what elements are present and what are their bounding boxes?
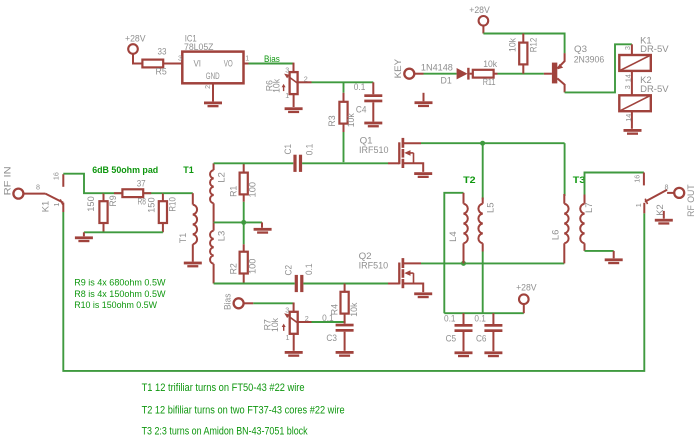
wire R3 to gate rail bbox=[343, 132, 345, 162]
svg-text:C5: C5 bbox=[446, 332, 457, 343]
svg-text:0.1: 0.1 bbox=[303, 144, 314, 156]
ground (Q1 source) bbox=[414, 172, 432, 178]
wire Q2 drain rail bbox=[421, 262, 564, 264]
svg-text:Bias: Bias bbox=[222, 293, 233, 310]
svg-text:T1 12 trifiliar turns on FT50-: T1 12 trifiliar turns on FT50-43 #22 wir… bbox=[142, 382, 305, 394]
svg-text:+28V: +28V bbox=[469, 4, 490, 15]
svg-text:T1: T1 bbox=[177, 233, 188, 244]
svg-text:1: 1 bbox=[245, 54, 249, 63]
svg-text:R1: R1 bbox=[228, 186, 239, 197]
svg-text:C2: C2 bbox=[282, 265, 293, 276]
wire C2 to Q2 gate bbox=[303, 283, 388, 285]
capacitor C2 0.1 bbox=[282, 263, 314, 292]
svg-text:D1: D1 bbox=[441, 75, 452, 86]
power +28V (top right) bbox=[469, 4, 490, 33]
svg-text:R10: R10 bbox=[166, 197, 177, 212]
wire attenuator bottom bbox=[84, 231, 163, 233]
ground (R6 pin 1) bbox=[285, 107, 303, 113]
svg-text:L2: L2 bbox=[216, 172, 227, 183]
resistor R10 150 bbox=[146, 193, 178, 232]
wire L7 top to K2 contact bbox=[585, 173, 644, 195]
node center tap junction bbox=[241, 220, 246, 225]
svg-text:T3: T3 bbox=[573, 174, 586, 185]
capacitor C4 0.1 bbox=[354, 81, 383, 121]
svg-text:10k: 10k bbox=[269, 318, 280, 332]
svg-text:1: 1 bbox=[52, 203, 61, 207]
svg-text:2: 2 bbox=[203, 85, 212, 89]
pad RF IN bbox=[2, 166, 46, 198]
svg-text:0.1: 0.1 bbox=[303, 263, 314, 275]
svg-text:Bias: Bias bbox=[264, 53, 280, 64]
wire Q3 collector to relay coils bbox=[565, 44, 632, 92]
capacitor C6 0.1 bbox=[474, 312, 502, 351]
svg-text:1: 1 bbox=[634, 203, 643, 207]
capacitor C5 0.1 bbox=[444, 312, 473, 351]
svg-text:R12: R12 bbox=[528, 38, 539, 53]
svg-text:T2: T2 bbox=[463, 174, 476, 185]
wire R7 wiper to R4/C3 bbox=[312, 322, 345, 323]
svg-text:+28V: +28V bbox=[125, 33, 146, 44]
pad KEY bbox=[392, 58, 424, 79]
resistor R9 150 bbox=[85, 193, 118, 232]
pad RF OUT bbox=[674, 184, 696, 217]
wire L4 top to +28V rail (left leg) bbox=[444, 193, 463, 313]
svg-text:2: 2 bbox=[304, 74, 308, 83]
svg-text:R9 is 4x 680ohm 0.5W: R9 is 4x 680ohm 0.5W bbox=[74, 277, 165, 288]
svg-text:R2: R2 bbox=[228, 263, 239, 274]
wire attenuator to T1 primary bbox=[163, 192, 193, 194]
ground (C4) bbox=[364, 122, 382, 128]
relay contact K1 bbox=[36, 172, 63, 212]
svg-text:VO: VO bbox=[224, 57, 233, 68]
svg-text:0.1: 0.1 bbox=[322, 312, 334, 323]
inductor L2 bbox=[210, 163, 227, 222]
wire +28V rail to R12 and Q3 emitter bbox=[483, 34, 564, 54]
svg-text:C1: C1 bbox=[282, 144, 293, 155]
transistor Q3 2N3906 bbox=[544, 43, 604, 92]
svg-text:R11: R11 bbox=[483, 76, 496, 87]
node Q1 drain junction bbox=[480, 141, 485, 146]
svg-text:10k: 10k bbox=[348, 302, 359, 316]
svg-text:100: 100 bbox=[246, 182, 257, 198]
transistor Q1 IRF510 bbox=[359, 134, 423, 172]
node Q2 drain junction bbox=[461, 261, 466, 266]
wire L5 bottom to +28V rail bbox=[482, 252, 484, 314]
resistor R4 10k bbox=[329, 284, 360, 324]
wire R11 to Q3 base bbox=[498, 73, 544, 75]
power +28V (decoupling) bbox=[516, 281, 537, 313]
resistor R1 100 bbox=[228, 163, 258, 222]
svg-text:0.1: 0.1 bbox=[354, 81, 366, 92]
inductor L7 bbox=[580, 195, 594, 251]
capacitor C3 0.1 bbox=[322, 312, 354, 351]
transformer T1 primary winding bbox=[177, 193, 197, 261]
wire K1 coil to K2 coil bbox=[623, 71, 632, 95]
ground (center tap) bbox=[254, 222, 272, 233]
trimmer R6 10k bbox=[263, 63, 311, 107]
svg-text:8: 8 bbox=[36, 183, 40, 192]
ground (Q2 source) bbox=[414, 292, 432, 298]
svg-text:R10 is 150ohm 0.5W: R10 is 150ohm 0.5W bbox=[74, 299, 157, 310]
svg-text:RF OUT: RF OUT bbox=[685, 184, 696, 217]
wire K1 pin16 to attenuator input bbox=[63, 174, 103, 194]
svg-text:14: 14 bbox=[623, 74, 632, 82]
svg-text:10k: 10k bbox=[483, 58, 497, 69]
wire K1 pin1 down, bottom rail, up to K2 pin1 bbox=[63, 212, 644, 371]
svg-text:C4: C4 bbox=[356, 104, 367, 115]
ground (IC1 GND pin) bbox=[204, 102, 222, 108]
ground (attenuator) bbox=[75, 232, 93, 242]
svg-text:37: 37 bbox=[137, 178, 146, 189]
svg-text:L7: L7 bbox=[583, 202, 594, 213]
svg-text:6dB 50ohm pad: 6dB 50ohm pad bbox=[92, 164, 158, 175]
wire R6 wiper to R3 and C4 bbox=[312, 81, 374, 83]
svg-text:10k: 10k bbox=[345, 113, 356, 127]
svg-text:R3: R3 bbox=[326, 115, 337, 126]
ground (K2 contact) bbox=[655, 211, 673, 225]
op-amp U1 / voltage regulator IC1 78L05Z bbox=[178, 33, 249, 102]
svg-text:16: 16 bbox=[52, 172, 61, 180]
ground (C6) bbox=[484, 351, 502, 357]
svg-text:T2 12 bifiliar turns on two FT: T2 12 bifiliar turns on two FT37-43 core… bbox=[142, 405, 345, 417]
ground (K2 coil) bbox=[624, 129, 642, 135]
resistor R12 10k bbox=[507, 34, 539, 74]
inductor L4 bbox=[447, 193, 468, 264]
ground (floating near KEY) bbox=[415, 93, 433, 107]
svg-text:L6: L6 bbox=[549, 230, 560, 241]
svg-text:3: 3 bbox=[178, 54, 182, 63]
wire +28V decoupling rail bbox=[444, 312, 524, 314]
svg-text:14: 14 bbox=[624, 114, 633, 122]
svg-text:GND: GND bbox=[206, 70, 220, 81]
svg-text:0.1: 0.1 bbox=[444, 312, 456, 323]
wire C1 to Q1 gate bbox=[302, 162, 388, 164]
svg-text:KEY: KEY bbox=[392, 58, 403, 78]
ground (L7) bbox=[605, 251, 623, 264]
svg-text:3: 3 bbox=[285, 65, 289, 74]
svg-text:3: 3 bbox=[285, 305, 289, 314]
resistor R8 37 bbox=[104, 178, 163, 207]
ground (R7 pin 1) bbox=[285, 351, 303, 357]
wire L7 bottom to ground bbox=[585, 250, 614, 252]
svg-text:33: 33 bbox=[158, 46, 167, 57]
svg-text:150: 150 bbox=[146, 197, 157, 213]
trimmer R7 10k bbox=[261, 303, 311, 351]
svg-text:1: 1 bbox=[286, 333, 290, 342]
svg-text:R9: R9 bbox=[107, 195, 118, 206]
wire KEY to D1 bbox=[424, 73, 457, 75]
svg-text:T1: T1 bbox=[183, 164, 194, 175]
wire top gate rail T1 to C1 bbox=[214, 162, 294, 164]
ground (C3) bbox=[336, 351, 354, 357]
ground (C5) bbox=[455, 351, 473, 357]
pad Bias bbox=[222, 293, 254, 310]
svg-text:R5: R5 bbox=[156, 65, 167, 76]
resistor R2 100 bbox=[228, 222, 258, 283]
resistor R3 10k bbox=[326, 82, 356, 132]
inductor L5 bbox=[478, 143, 495, 251]
svg-text:3: 3 bbox=[623, 85, 632, 89]
svg-text:10k: 10k bbox=[507, 38, 518, 52]
svg-text:C3: C3 bbox=[326, 332, 337, 343]
diode D1 1N4148 bbox=[421, 61, 473, 85]
wire Q1 drain rail bbox=[421, 142, 565, 144]
svg-text:3: 3 bbox=[623, 46, 632, 50]
svg-text:VI: VI bbox=[194, 57, 202, 68]
inductor L6 bbox=[549, 143, 568, 263]
svg-text:0.1: 0.1 bbox=[474, 312, 486, 323]
svg-text:DR-5V: DR-5V bbox=[640, 43, 669, 54]
svg-text:150: 150 bbox=[85, 196, 96, 212]
svg-text:+28V: +28V bbox=[516, 281, 537, 292]
resistor R5 33 bbox=[142, 46, 182, 77]
svg-text:DR-5V: DR-5V bbox=[640, 83, 669, 94]
svg-text:100: 100 bbox=[246, 259, 257, 275]
relay coil K1 DR-5V bbox=[619, 35, 669, 71]
svg-text:R8 is 4x 150ohm 0.5W: R8 is 4x 150ohm 0.5W bbox=[74, 288, 165, 299]
relay coil K2 DR-5V bbox=[619, 74, 669, 129]
svg-text:L4: L4 bbox=[447, 231, 458, 242]
transistor Q2 IRF510 bbox=[359, 250, 424, 292]
wire VO to trimmer R6 bbox=[249, 63, 294, 65]
svg-text:1N4148: 1N4148 bbox=[421, 61, 453, 72]
svg-text:K1: K1 bbox=[39, 201, 50, 213]
relay contact K2 bbox=[632, 173, 674, 216]
svg-text:2N3906: 2N3906 bbox=[574, 54, 605, 65]
resistor R11 10k bbox=[473, 58, 498, 87]
svg-text:C6: C6 bbox=[476, 332, 487, 343]
svg-text:RF IN: RF IN bbox=[2, 166, 13, 195]
svg-text:L5: L5 bbox=[484, 202, 495, 213]
wire bottom gate rail T1 to C2 bbox=[214, 283, 295, 285]
svg-text:L3: L3 bbox=[216, 231, 227, 242]
power +28V supply symbol (regulator input) bbox=[125, 33, 146, 54]
svg-text:IRF510: IRF510 bbox=[359, 144, 389, 155]
svg-text:IRF510: IRF510 bbox=[359, 260, 389, 271]
wire +28V to R5 bbox=[133, 54, 143, 64]
wire Bias pad to trimmer R7 bbox=[253, 302, 293, 305]
wire T1 center tap bbox=[214, 221, 262, 223]
svg-text:10k: 10k bbox=[271, 79, 282, 93]
ground (T1 primary) bbox=[184, 262, 202, 268]
svg-text:2: 2 bbox=[305, 314, 309, 323]
svg-text:1: 1 bbox=[285, 91, 289, 100]
svg-text:T3 2:3 turns on Amidon BN-43-7: T3 2:3 turns on Amidon BN-43-7051 block bbox=[142, 426, 308, 437]
svg-text:8: 8 bbox=[665, 183, 669, 192]
inductor L3 bbox=[210, 222, 227, 283]
capacitor C1 0.1 bbox=[282, 144, 314, 172]
note resistor values bbox=[74, 277, 165, 311]
svg-text:78L05Z: 78L05Z bbox=[184, 41, 214, 52]
svg-text:16: 16 bbox=[632, 175, 641, 183]
